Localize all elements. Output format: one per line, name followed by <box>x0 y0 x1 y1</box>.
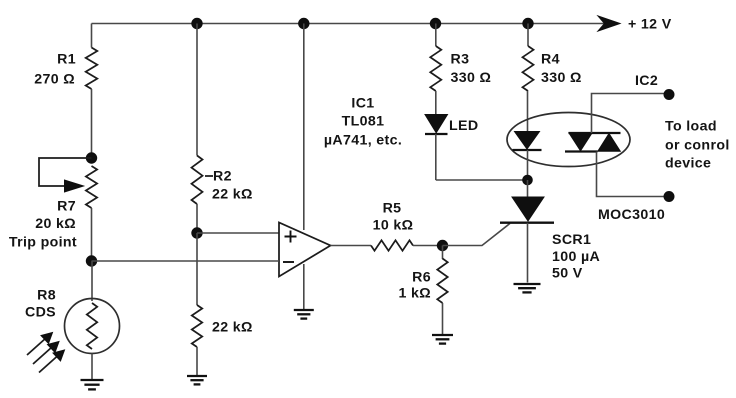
svg-text:R7: R7 <box>57 199 76 215</box>
node junction rail / R3 <box>430 18 440 28</box>
svg-text:22 kΩ: 22 kΩ <box>212 320 253 336</box>
wire R1 top lead <box>91 24 93 48</box>
svg-text:22 kΩ: 22 kΩ <box>212 187 253 203</box>
op-amp IC1 triangle <box>279 223 331 277</box>
triac left triangle <box>569 133 592 151</box>
svg-text:R2: R2 <box>213 169 232 185</box>
wire LED branch to SCR anode node <box>436 179 528 181</box>
svg-text:50 V: 50 V <box>552 266 583 282</box>
svg-text:To load: To load <box>665 119 717 135</box>
photocell R8 circle <box>65 299 120 354</box>
svg-text:270 Ω: 270 Ω <box>34 72 75 88</box>
node junction rail / op-amp supply <box>299 18 309 28</box>
svg-text:R8: R8 <box>37 288 56 304</box>
wire R1 bottom lead <box>91 89 93 158</box>
wire lower 22k bottom lead <box>196 347 198 375</box>
resistor R1 <box>86 48 98 90</box>
wire LED cathode down <box>435 134 437 180</box>
ground below op-amp <box>294 309 314 311</box>
diode LED triangle <box>425 115 448 133</box>
arrowhead +12V rail <box>598 16 620 31</box>
SCR cathode bar <box>500 222 554 224</box>
svg-text:330 Ω: 330 Ω <box>451 70 492 86</box>
svg-text:MOC3010: MOC3010 <box>598 207 665 223</box>
svg-text:LED: LED <box>449 118 478 134</box>
wire SCR gate <box>443 223 511 245</box>
node junction LED wire / opto / SCR anode <box>523 175 533 185</box>
resistor element inside R8 <box>87 303 97 349</box>
wire opto LED cathode down <box>527 150 529 180</box>
svg-text:100 µA: 100 µA <box>552 249 600 265</box>
svg-text:R6: R6 <box>412 270 431 286</box>
resistor R4 <box>523 46 534 91</box>
svg-text:20 kΩ: 20 kΩ <box>35 216 76 232</box>
SCR1 anode triangle <box>512 197 544 221</box>
wire R6 top lead <box>442 246 444 260</box>
arrowhead R7 wiper <box>65 180 84 192</box>
node junction R5 / R6 / gate <box>437 240 447 250</box>
wire top +12V rail <box>92 23 612 25</box>
wire op-amp supply <box>303 24 305 231</box>
wire triac MT1 to IC2 bottom terminal <box>597 152 665 197</box>
opto LED triangle <box>515 132 540 150</box>
wire R4 top lead <box>527 24 529 47</box>
svg-text:TL081: TL081 <box>342 114 385 130</box>
svg-text:R4: R4 <box>541 52 560 68</box>
wire triac MT2 to IC2 top terminal <box>592 94 666 134</box>
triac right triangle <box>598 134 621 152</box>
wire R7 bottom lead <box>91 208 93 261</box>
svg-text:device: device <box>665 156 711 172</box>
label R2 22 kohm <box>205 175 213 177</box>
svg-text:SCR1: SCR1 <box>552 232 591 248</box>
ground below SCR <box>514 283 541 285</box>
svg-text:330 Ω: 330 Ω <box>541 70 582 86</box>
wire op-amp ground lead <box>303 264 305 310</box>
node junction R1 / R7 wiper <box>86 153 96 163</box>
resistor R5 <box>371 240 413 250</box>
wire R4 to opto LED anode <box>527 91 529 132</box>
svg-text:1 kΩ: 1 kΩ <box>399 286 432 302</box>
resistor R2 <box>192 156 203 205</box>
node IC2 bottom terminal <box>664 192 674 202</box>
node junction R7 / R8 / inverting input <box>86 256 96 266</box>
ground below lower 22k <box>187 375 207 377</box>
wire SCR cathode lead <box>527 223 529 283</box>
svg-text:IC1: IC1 <box>351 96 374 112</box>
wire R8 top lead <box>91 261 93 301</box>
svg-text:R3: R3 <box>451 52 470 68</box>
optocoupler IC2 package ellipse <box>507 113 630 167</box>
resistor R3 <box>430 46 441 91</box>
opto LED cathode bar <box>513 149 542 151</box>
wire R5 to gate node <box>413 245 442 247</box>
resistor R6 <box>437 259 447 304</box>
wire R7 wiper loop <box>39 158 92 186</box>
wire divider node down to lower 22k <box>196 233 198 305</box>
svg-text:10 kΩ: 10 kΩ <box>373 218 414 234</box>
triac MT2 top bar <box>569 132 621 134</box>
wire SCR anode lead <box>527 180 529 197</box>
resistor 22 kohm lower <box>192 305 202 347</box>
resistor R7 potentiometer <box>86 166 97 208</box>
node junction rail / R4 <box>523 18 533 28</box>
wire R8 bottom lead <box>91 354 93 380</box>
ground below R8 <box>81 379 104 381</box>
svg-text:Trip point: Trip point <box>9 235 77 251</box>
ground below R6 <box>432 334 453 336</box>
node junction R2 / lower 22k / noninverting input <box>192 228 202 238</box>
diode LED cathode bar <box>425 133 448 135</box>
node IC2 top terminal <box>664 90 674 100</box>
wire R3 to LED anode <box>435 91 437 115</box>
op-amp plus input symbol <box>285 231 297 243</box>
svg-text:R5: R5 <box>383 201 402 217</box>
svg-text:or conrol: or conrol <box>665 138 730 154</box>
svg-text:IC2: IC2 <box>635 73 658 89</box>
triac MT1 bottom bar <box>565 150 598 152</box>
wire R2 top lead <box>196 24 198 156</box>
svg-text:CDS: CDS <box>25 305 56 321</box>
light arrows into R8 <box>27 333 65 373</box>
wire op-amp inverting input from R7/R8 node <box>92 260 280 262</box>
wire R2 bottom lead <box>196 204 198 233</box>
svg-text:µA741, etc.: µA741, etc. <box>324 133 402 149</box>
op-amp minus input symbol <box>283 261 294 263</box>
node junction rail / R2 <box>192 18 202 28</box>
wire divider node to op-amp noninverting input <box>197 232 279 234</box>
svg-text:+ 12 V: + 12 V <box>628 17 672 33</box>
wire R6 bottom lead <box>442 303 444 334</box>
svg-text:R1: R1 <box>57 52 76 68</box>
wire op-amp output <box>331 245 372 247</box>
wire R3 top lead <box>435 24 437 47</box>
